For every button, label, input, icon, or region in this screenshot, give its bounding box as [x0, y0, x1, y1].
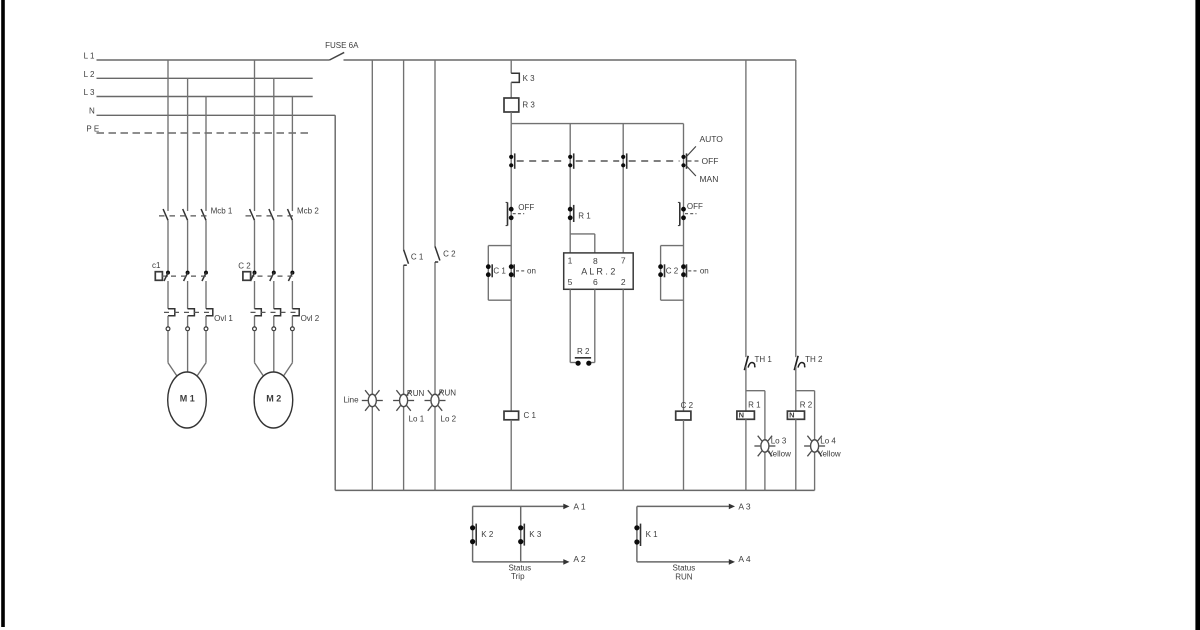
wire ALR pin 6 down	[589, 289, 594, 362]
wire status trip left leg	[472, 506, 474, 562]
node A 2 label	[573, 554, 586, 564]
wire RUN Lo2 column	[434, 60, 436, 490]
svg-text:TH 1: TH 1	[755, 355, 773, 364]
contact K 3 status	[518, 524, 524, 546]
motor M 2 terminal circle 1	[253, 327, 257, 331]
contact K 3 status label	[529, 530, 542, 539]
motor M 2 terminal circle 3	[291, 327, 295, 331]
pushbutton OFF label (C2 branch)	[687, 202, 703, 211]
pushbutton OFF label (C1 branch)	[518, 203, 534, 212]
svg-text:N: N	[739, 411, 744, 420]
svg-text:RUN: RUN	[407, 389, 425, 398]
selector position AUTO label	[699, 134, 723, 144]
overload Ovl 1 pole 1 heater	[168, 309, 175, 316]
svg-text:K 3: K 3	[529, 530, 542, 539]
wire C2 box to pole	[251, 275, 255, 277]
motor M 2 terminal circle 2	[272, 327, 276, 331]
wire PE dashed rail	[97, 132, 313, 134]
wire motor M 2 lead mid	[273, 331, 275, 372]
svg-text:Trip: Trip	[511, 572, 525, 581]
wire C 2 holding branch	[661, 246, 684, 301]
wire TH1 to R1 coil	[745, 367, 747, 412]
svg-text:Ovl 1: Ovl 1	[214, 314, 233, 323]
wire ALR pin 2 down to bottom rail	[622, 289, 624, 490]
contactor 1 mechanical link dashed	[171, 275, 211, 277]
relay coil R 1 label	[748, 400, 761, 409]
wire contactor 2 pole 2 to overload	[273, 281, 275, 309]
wire L3 drop to Mcb 1 pole 3	[205, 97, 207, 212]
svg-text:RUN: RUN	[439, 389, 457, 398]
contactor coil C 1	[504, 411, 519, 420]
svg-text:C 1: C 1	[523, 411, 536, 420]
wire C1 coil to bottom rail	[510, 420, 512, 491]
lamp Lo 3 indicator	[754, 436, 775, 457]
relay ALR.2 pin 6 label	[593, 277, 598, 287]
svg-text:C 2: C 2	[443, 250, 456, 259]
svg-text:A 2: A 2	[573, 554, 586, 564]
thermal contact TH 2 label	[805, 355, 823, 364]
contactor coil C 2 label	[681, 401, 694, 410]
svg-text:MAN: MAN	[699, 174, 718, 184]
relay coil R 2	[787, 411, 804, 420]
wire overload 1 pole 1 to terminal	[167, 316, 169, 327]
wire L3 rail	[97, 96, 313, 98]
wire L1 drop to Mcb 1 pole 1	[167, 60, 169, 211]
wire status trip middle leg	[520, 506, 522, 562]
breaker Mcb 2 pole 2 blade	[269, 209, 274, 220]
selector switch contact col 2	[568, 153, 574, 168]
svg-text:L 3: L 3	[84, 88, 95, 97]
contact R 1	[568, 205, 574, 222]
selector position MAN label	[699, 174, 718, 184]
svg-text:Lo 1: Lo 1	[409, 415, 425, 424]
overload Ovl 1 label	[214, 314, 233, 323]
wire top rail to TH 1	[745, 60, 747, 357]
wire bottom control rail	[335, 489, 814, 491]
wire motor M 2 lead right	[284, 331, 293, 376]
relay ALR.2 pin 7 label	[621, 255, 626, 265]
breaker Mcb 2 pole 1 blade	[250, 209, 255, 220]
relay ALR.2 name label	[581, 267, 615, 277]
svg-text:Ovl 2: Ovl 2	[301, 314, 320, 323]
wire TH2 to R2 coil	[795, 367, 797, 412]
overload Ovl 1 pole 2 heater	[188, 309, 195, 316]
node L2 label	[84, 70, 95, 79]
contactor c1 coil box	[155, 272, 162, 281]
svg-text:A 4: A 4	[738, 554, 751, 564]
breaker Mcb 1 label	[211, 206, 233, 215]
overload Ovl 1 pole 3 heater	[206, 309, 213, 316]
svg-text:C 1: C 1	[411, 253, 424, 262]
breaker Mcb 1 pole 1 blade	[163, 209, 168, 220]
wire overload 2 pole 1 to terminal	[254, 316, 256, 327]
wire L1 drop to Mcb 2 pole 1	[254, 60, 256, 211]
wire N vertical left edge of control circuit	[334, 115, 336, 490]
contactor C 2 label	[238, 261, 251, 270]
svg-text:R 1: R 1	[748, 400, 761, 409]
svg-text:Lo 4: Lo 4	[820, 437, 836, 446]
wire contactor 1 pole 3 to overload	[205, 281, 207, 309]
wire L3 drop to Mcb 2 pole 3	[291, 97, 293, 212]
wire RUN Lo1 column	[403, 60, 405, 490]
svg-text:P E: P E	[86, 125, 99, 134]
wire Mcb 2 pole 2 to contactor	[273, 220, 275, 273]
wire L2 drop to Mcb 2 pole 2	[273, 78, 275, 211]
contactor 2 mechanical link dashed	[258, 275, 298, 277]
thermal contact TH 2	[794, 356, 805, 370]
lamp Lo 1 label	[409, 415, 425, 424]
contact C 1 aux label	[411, 253, 424, 262]
wire contactor 1 pole 2 to overload	[187, 281, 189, 309]
contact C 1 holding label	[493, 266, 506, 275]
wire Mcb 1 pole 1 to contactor	[167, 220, 169, 273]
wire Mcb 2 pole 3 to contactor	[291, 220, 293, 273]
motor M 1 terminal circle 2	[186, 327, 190, 331]
contactor 2 pole 3 contact	[288, 271, 294, 281]
wire N rail	[97, 114, 336, 116]
wire status run top line	[637, 504, 735, 510]
breaker Mcb 1 mechanical link dashed	[159, 215, 212, 217]
svg-text:FUSE 6A: FUSE 6A	[325, 41, 359, 50]
svg-text:R 2: R 2	[577, 347, 590, 356]
wire overload 1 pole 3 to terminal	[205, 316, 207, 327]
fuse FUSE 6A blade	[330, 52, 345, 60]
contact on (C2 manual)	[681, 264, 697, 277]
lamp Lo 2 RUN label	[439, 389, 457, 398]
relay ALR.2 pin 1 label	[568, 256, 573, 266]
lamp Lo 3 Yellow label	[768, 450, 791, 459]
wire Mcb 1 pole 3 to contactor	[205, 220, 207, 273]
svg-text:N: N	[789, 411, 794, 420]
wire R3 to selector rail	[510, 112, 512, 124]
svg-text:OFF: OFF	[702, 156, 719, 166]
contact R 1 label	[578, 211, 591, 220]
wire K3 to R3	[510, 82, 512, 98]
breaker Mcb 2 pole 3 blade	[288, 209, 293, 220]
svg-text:A L R . 2: A L R . 2	[581, 267, 615, 277]
svg-text:L 2: L 2	[84, 70, 95, 79]
wire selector feed rail	[511, 123, 683, 125]
svg-text:M 2: M 2	[266, 394, 281, 404]
contact on (C1 manual)	[509, 264, 525, 277]
wire contactor 2 pole 1 to overload	[254, 281, 256, 309]
contact C 2 holding	[658, 264, 664, 277]
lamp Line indicator	[362, 390, 383, 411]
thermal contact TH 1 label	[755, 355, 773, 364]
svg-text:R 2: R 2	[800, 400, 813, 409]
svg-text:C 2: C 2	[238, 261, 251, 270]
contact on label (C1)	[527, 266, 536, 275]
svg-text:K 1: K 1	[646, 530, 659, 539]
svg-text:C 1: C 1	[493, 266, 506, 275]
wire L2 rail	[97, 77, 313, 79]
node L1 label	[84, 52, 95, 61]
contact C 2 aux label	[443, 250, 456, 259]
selector switch contact col 3	[621, 153, 627, 168]
relay ALR.2 pin 5 label	[568, 277, 573, 287]
svg-text:Yellow: Yellow	[818, 450, 841, 459]
contact K 3 label	[523, 74, 536, 83]
wire status run left leg	[636, 506, 638, 562]
svg-text:C 2: C 2	[666, 266, 679, 275]
svg-text:Lo 2: Lo 2	[441, 415, 457, 424]
status run caption	[673, 564, 696, 582]
svg-text:N: N	[89, 107, 95, 116]
wire top rail corner to TH 2	[795, 60, 797, 357]
relay coil R 1	[737, 411, 755, 420]
wire motor M 1 lead mid	[187, 331, 189, 372]
motor M 1 terminal circle 3	[204, 327, 208, 331]
svg-text:Yellow: Yellow	[768, 450, 791, 459]
node L3 label	[84, 88, 95, 97]
selector position OFF label	[702, 156, 719, 166]
wire ALR pin 5 down	[570, 289, 576, 362]
svg-text:L 1: L 1	[84, 52, 95, 61]
svg-text:A 3: A 3	[738, 501, 751, 511]
wire status trip top line	[473, 504, 570, 510]
lamp Lo 2 indicator	[425, 390, 446, 411]
contact C 1 aux (lamp column)	[404, 250, 409, 266]
wire L1 top rail after fuse	[344, 59, 796, 61]
selector switch dashed link	[517, 160, 680, 162]
svg-text:2: 2	[621, 277, 626, 287]
breaker Mcb 1 pole 2 blade	[183, 209, 188, 220]
wire L1 rail left of fuse	[97, 59, 330, 61]
wire TH2 branch to lamp Lo4	[796, 391, 815, 491]
relay ALR.2 pin 2 label	[621, 277, 626, 287]
wire status run bottom line	[637, 559, 735, 565]
wire selector drop col 1	[510, 124, 512, 412]
svg-text:on: on	[700, 266, 709, 275]
overload Ovl 2 mechanical link dashed	[251, 311, 297, 313]
wire C2 coil to bottom rail	[683, 420, 685, 490]
contact K 1 label	[646, 530, 659, 539]
breaker Mcb 1 pole 3 blade	[201, 209, 206, 220]
pushbutton OFF (C1 branch)	[506, 202, 525, 225]
lamp Lo 1 RUN label	[407, 389, 425, 398]
overload Ovl 1 mechanical link dashed	[164, 311, 211, 313]
wire overload 2 pole 3 to terminal	[291, 316, 293, 327]
wire L2 drop to Mcb 1 pole 2	[187, 78, 189, 211]
lamp Lo 1 indicator	[393, 390, 414, 411]
contact R 2 label	[577, 347, 590, 356]
wire Line lamp column	[371, 60, 373, 490]
wire status trip bottom line	[473, 559, 570, 565]
svg-text:Line: Line	[343, 396, 359, 405]
selector switch actuator	[681, 146, 699, 176]
node A 3 label	[738, 501, 751, 511]
wire Mcb 1 pole 2 to contactor	[187, 220, 189, 273]
node A 4 label	[738, 554, 751, 564]
svg-text:R 1: R 1	[578, 211, 591, 220]
lamp Line label	[343, 396, 359, 405]
contactor 1 pole 2 contact	[184, 271, 190, 281]
svg-text:C 2: C 2	[681, 401, 694, 410]
lamp Lo 4 indicator	[804, 436, 825, 457]
contactor 1 pole 1 contact	[164, 271, 170, 281]
wire contactor 2 pole 3 to overload	[291, 281, 293, 309]
svg-text:5: 5	[568, 277, 573, 287]
wire c1 box to pole	[162, 275, 168, 277]
contactor 2 pole 1 contact	[251, 271, 257, 281]
svg-text:Mcb 2: Mcb 2	[297, 206, 319, 215]
wire R1 coil to bottom rail	[745, 419, 747, 490]
contactor c1 label	[152, 261, 161, 270]
contact R 2 (remote)	[575, 358, 592, 366]
motor M 2 body	[254, 372, 293, 428]
breaker Mcb 2 label	[297, 206, 319, 215]
node N label	[89, 107, 95, 116]
border left black bar	[1, 0, 5, 627]
wire C 1 holding branch	[488, 246, 511, 301]
svg-text:8: 8	[593, 256, 598, 266]
contactor 2 pole 2 contact	[270, 271, 276, 281]
wire top rail to K3	[510, 60, 512, 73]
wire R2 coil to bottom rail	[795, 419, 797, 490]
wire selector drop col 4	[683, 124, 685, 412]
wire overload 1 pole 2 to terminal	[187, 316, 189, 327]
wire TH1 branch to lamp Lo3	[746, 391, 765, 491]
svg-text:OFF: OFF	[687, 202, 703, 211]
contact C 2 aux (lamp column)	[435, 246, 440, 262]
border right black bar	[1195, 0, 1200, 630]
svg-text:RUN: RUN	[675, 572, 693, 581]
svg-text:Mcb 1: Mcb 1	[211, 206, 233, 215]
contactor 1 pole 3 contact	[202, 271, 208, 281]
svg-text:AUTO: AUTO	[699, 134, 723, 144]
fuse FUSE 6A label	[325, 41, 359, 50]
lamp Lo 3 label	[771, 437, 787, 446]
overload Ovl 2 pole 3 heater	[292, 309, 299, 316]
relay coil R 3 label	[522, 100, 535, 109]
lamp Lo 4 label	[820, 437, 836, 446]
wire selector drop col 2	[569, 124, 571, 253]
contact C 1 holding	[486, 264, 492, 277]
overload Ovl 2 label	[301, 314, 320, 323]
overload Ovl 2 pole 1 heater	[254, 309, 261, 316]
wire selector drop col 3 (ALR pin 7)	[622, 124, 624, 253]
svg-text:R 3: R 3	[522, 100, 535, 109]
relay coil R 2 label	[800, 400, 813, 409]
svg-text:K 3: K 3	[523, 74, 536, 83]
selector switch contact col 1	[509, 153, 515, 168]
relay block ALR.2 box	[564, 253, 634, 289]
lamp Lo 4 Yellow label	[818, 450, 841, 459]
contact C 2 holding label	[666, 266, 679, 275]
contactor coil C 2	[676, 411, 691, 420]
contact K 1	[634, 524, 640, 546]
wire Mcb 2 pole 1 to contactor	[254, 220, 256, 273]
node A 1 label	[573, 501, 586, 511]
contact K 3 (fuse-link jog)	[511, 73, 519, 82]
lamp Lo 2 label	[441, 415, 457, 424]
svg-text:Lo 3: Lo 3	[771, 437, 787, 446]
breaker Mcb 2 mechanical link dashed	[246, 215, 298, 217]
contactor C 2 coil box	[243, 272, 251, 281]
svg-text:Status: Status	[673, 564, 696, 573]
thermal contact TH 1	[744, 356, 755, 370]
svg-text:TH 2: TH 2	[805, 355, 823, 364]
wire overload 2 pole 2 to terminal	[273, 316, 275, 327]
wire R1 column to ALR pin 8 branch	[570, 234, 595, 253]
svg-text:on: on	[527, 266, 536, 275]
wire motor M 2 lead left	[255, 331, 264, 376]
relay coil R 3 box	[504, 98, 519, 112]
relay ALR.2 pin 8 label	[593, 256, 598, 266]
motor M 1 terminal circle 1	[166, 327, 170, 331]
svg-text:1: 1	[568, 256, 573, 266]
contact K 2 label	[481, 530, 494, 539]
svg-text:c1: c1	[152, 261, 161, 270]
motor M 1 body	[168, 372, 207, 428]
svg-text:7: 7	[621, 255, 626, 265]
overload Ovl 2 pole 2 heater	[274, 309, 281, 316]
svg-text:M 1: M 1	[180, 394, 195, 404]
contact on label (C2)	[700, 266, 709, 275]
wire motor M 1 lead right	[197, 331, 206, 376]
node PE label	[86, 125, 99, 134]
pushbutton OFF (C2 branch)	[678, 202, 697, 225]
contact K 2	[470, 524, 476, 546]
status trip caption	[508, 564, 531, 582]
svg-text:OFF: OFF	[518, 203, 534, 212]
wire contactor 1 pole 1 to overload	[167, 281, 169, 309]
contactor coil C 1 label	[523, 411, 536, 420]
wire motor M 1 lead left	[168, 331, 177, 376]
svg-text:A 1: A 1	[573, 501, 586, 511]
svg-text:6: 6	[593, 277, 598, 287]
svg-text:K 2: K 2	[481, 530, 494, 539]
